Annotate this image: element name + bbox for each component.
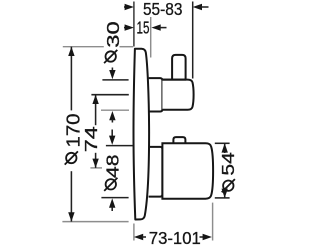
svg-text:30: 30 xyxy=(103,21,123,48)
dim 74 bottom tick xyxy=(90,167,102,169)
dim dia30 top tick xyxy=(102,79,128,81)
upper handle stem xyxy=(172,55,186,79)
dim 55-83 extension line right xyxy=(192,2,194,79)
upper sleeve xyxy=(149,78,163,111)
lower sleeve xyxy=(149,147,163,197)
dia symbol of dia48 xyxy=(106,179,116,189)
svg-text:15: 15 xyxy=(137,17,150,37)
dim 74 top tick xyxy=(91,94,128,96)
dia symbol of dia54 xyxy=(223,181,233,191)
dim dia54 top tick xyxy=(215,142,230,144)
dim 74 line + arrows xyxy=(95,95,97,126)
dim dia170 top tick xyxy=(63,46,104,48)
dim dia54 bottom tick xyxy=(215,197,230,199)
dim 73-101 extension line left xyxy=(133,224,135,241)
dim dia30 upper outside arrow xyxy=(111,68,113,72)
svg-text:54: 54 xyxy=(218,152,238,176)
dim dia48 top tick xyxy=(106,145,133,147)
dim 15 extension line (wall plane) xyxy=(150,17,152,58)
dim 15 line + arrows xyxy=(124,27,126,29)
dia symbol of dia170 xyxy=(66,153,76,163)
dim dia48 bottom tick xyxy=(101,197,128,199)
dim 73-101 extension line right xyxy=(212,203,214,241)
upper grip top line under stem xyxy=(162,79,186,81)
svg-text:48: 48 xyxy=(102,154,122,178)
dim dia48 lower outside arrow xyxy=(109,198,115,207)
dim 55-83 extension line left xyxy=(133,2,135,47)
dim dia54 line + arrows xyxy=(224,143,226,153)
dim dia30 bottom tick xyxy=(101,109,129,111)
svg-text:74: 74 xyxy=(81,126,101,152)
lower grip body (dia 54) xyxy=(162,143,213,198)
svg-text:55-83: 55-83 xyxy=(143,0,183,19)
svg-text:73-101: 73-101 xyxy=(149,228,201,248)
upper grip body (dia 30) xyxy=(162,80,193,110)
escutcheon plate (side profile) xyxy=(134,49,150,220)
dim 73-101 line + arrows xyxy=(134,234,143,240)
lower handle nub xyxy=(173,137,185,143)
dim dia30 lower outside arrow xyxy=(109,111,115,120)
dim dia170 line + arrows xyxy=(70,47,72,111)
dia symbol of dia30 xyxy=(106,51,116,61)
dim 55-83 line + arrows xyxy=(124,6,126,8)
dim dia48 upper outside arrow xyxy=(111,130,113,137)
dim dia170 bottom tick xyxy=(62,221,128,223)
